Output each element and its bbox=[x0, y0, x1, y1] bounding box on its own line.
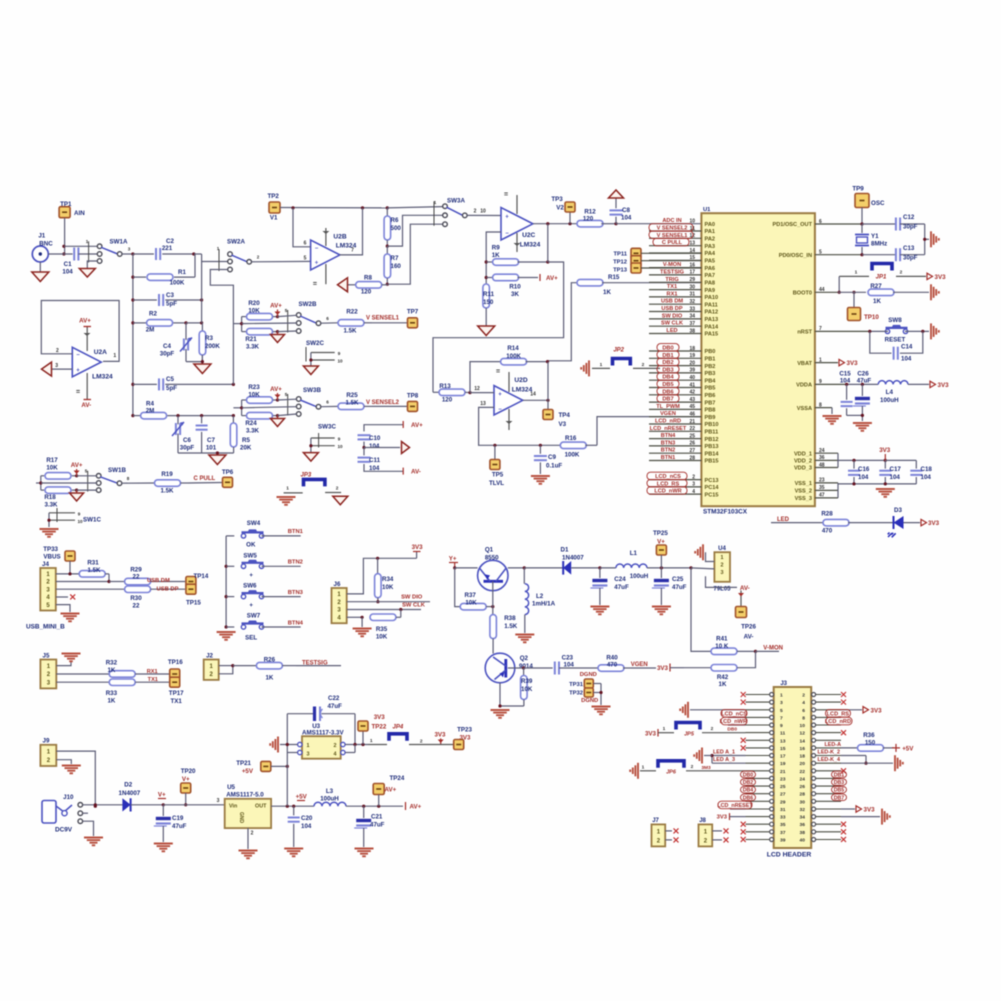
connector J5 bbox=[40, 653, 56, 689]
ground J1 bbox=[32, 272, 49, 282]
resistor R38 1.5K bbox=[490, 615, 518, 654]
net LCD_nRESET J3 bbox=[717, 801, 753, 809]
svg-text:V+: V+ bbox=[182, 776, 190, 783]
ground JP3 pin1 bbox=[277, 497, 296, 505]
svg-text:1K: 1K bbox=[719, 681, 727, 688]
svg-text:16: 16 bbox=[800, 746, 806, 752]
ground C21 bbox=[355, 849, 374, 857]
svg-text:C13: C13 bbox=[903, 245, 915, 252]
ground VSSA bbox=[823, 408, 842, 424]
svg-text:U2D: U2D bbox=[514, 377, 527, 384]
svg-text:C7: C7 bbox=[207, 437, 215, 444]
svg-text:SW7: SW7 bbox=[247, 613, 261, 620]
ground SW3C bbox=[303, 453, 318, 462]
svg-text:TP20: TP20 bbox=[181, 768, 196, 775]
testpoint TP21 +5V bbox=[236, 760, 289, 775]
svg-text:17: 17 bbox=[780, 754, 786, 760]
capacitor C19 47uF bbox=[154, 805, 187, 842]
net LCD_nCS J3 bbox=[721, 710, 747, 718]
svg-text:SW2A: SW2A bbox=[227, 239, 245, 246]
IC U3 AMS1117-3.3V bbox=[298, 723, 346, 759]
svg-text:25: 25 bbox=[780, 784, 786, 790]
svg-text:U1: U1 bbox=[703, 207, 711, 213]
transistor Q2 9014 bbox=[485, 653, 533, 683]
net BTN1 bbox=[288, 529, 304, 535]
svg-text:VSSA: VSSA bbox=[797, 406, 812, 412]
svg-text:−: − bbox=[505, 231, 509, 237]
U1 left pins PB0-PB15 bbox=[649, 344, 719, 465]
svg-text:R39: R39 bbox=[521, 678, 533, 685]
svg-text:+: + bbox=[249, 602, 253, 609]
svg-text:C12: C12 bbox=[903, 214, 915, 221]
svg-text:AIN: AIN bbox=[74, 210, 85, 217]
svg-text:1.5K: 1.5K bbox=[87, 567, 101, 574]
svg-text:1K: 1K bbox=[492, 252, 500, 259]
svg-text:C11: C11 bbox=[369, 457, 381, 464]
svg-text:31: 31 bbox=[780, 807, 786, 813]
capacitor C22 47uF bbox=[315, 695, 343, 721]
resistor R5 20K bbox=[230, 416, 252, 453]
svg-text:104: 104 bbox=[921, 474, 932, 481]
svg-text:LCD_nCS: LCD_nCS bbox=[721, 711, 747, 717]
svg-text:BTN3: BTN3 bbox=[288, 590, 304, 596]
svg-text:LCD HEADER: LCD HEADER bbox=[767, 852, 812, 859]
svg-text:DB7: DB7 bbox=[662, 397, 673, 403]
resistor R24 3.3K bbox=[242, 412, 280, 434]
svg-text:RX1: RX1 bbox=[667, 291, 678, 297]
svg-text:104: 104 bbox=[858, 474, 869, 481]
net DB6 J3 bbox=[741, 794, 756, 801]
svg-text:TP15: TP15 bbox=[186, 600, 201, 607]
svg-text:TP26: TP26 bbox=[741, 624, 756, 631]
svg-text:R32: R32 bbox=[106, 659, 118, 666]
testpoint TP8 bbox=[407, 393, 419, 412]
svg-text:USB_MINI_B: USB_MINI_B bbox=[26, 624, 65, 631]
svg-text:1K: 1K bbox=[107, 667, 115, 674]
svg-text:TP7: TP7 bbox=[407, 309, 419, 316]
ground Q2 bbox=[491, 710, 510, 718]
svg-text:D3: D3 bbox=[894, 507, 902, 514]
svg-text:TLVL: TLVL bbox=[489, 480, 504, 487]
wire U2D plus input bbox=[470, 392, 494, 394]
svg-text:1: 1 bbox=[855, 270, 858, 276]
svg-text:47uF: 47uF bbox=[172, 823, 187, 830]
svg-text:SW8: SW8 bbox=[888, 317, 902, 324]
ground R18 bbox=[70, 490, 84, 501]
svg-text:5: 5 bbox=[780, 708, 783, 714]
svg-text:JP6: JP6 bbox=[666, 770, 677, 776]
svg-text:10K: 10K bbox=[382, 584, 394, 591]
svg-text:U2B: U2B bbox=[333, 234, 346, 241]
svg-text:AV-: AV- bbox=[411, 469, 421, 476]
wire button bus bbox=[225, 536, 235, 629]
svg-text:TP10: TP10 bbox=[864, 314, 879, 321]
svg-text:SW3B: SW3B bbox=[303, 387, 321, 394]
switch SW1B bbox=[85, 467, 130, 492]
svg-text:VDD_3: VDD_3 bbox=[794, 466, 812, 472]
arrow U2A input bbox=[42, 362, 52, 376]
connector J4 USB_MINI_B bbox=[26, 561, 65, 631]
svg-text:AV-: AV- bbox=[81, 402, 91, 409]
connector J3 LCD HEADER bbox=[767, 681, 812, 859]
wire VBUS to pin1 bbox=[56, 561, 79, 576]
power AV- C11 bbox=[403, 468, 421, 476]
svg-text:2: 2 bbox=[691, 764, 694, 770]
power 3V3 R42 bbox=[657, 664, 684, 673]
svg-text:AMS1117-3.3V: AMS1117-3.3V bbox=[302, 730, 344, 737]
svg-text:C15: C15 bbox=[839, 371, 851, 378]
resistor R3 200K bbox=[199, 323, 220, 362]
ground J10 bbox=[84, 838, 103, 846]
wire U3 output bbox=[345, 743, 368, 753]
power AV- U4 bbox=[738, 585, 750, 606]
svg-text:C PULL: C PULL bbox=[662, 240, 683, 246]
svg-text:R24: R24 bbox=[245, 420, 257, 427]
svg-text:SEL: SEL bbox=[245, 635, 257, 642]
net V SENSEL2 bbox=[366, 400, 407, 406]
svg-text:22: 22 bbox=[133, 602, 140, 609]
ground R11 bbox=[478, 326, 495, 336]
crystal Y1 8MHz bbox=[855, 224, 887, 256]
svg-text:PB6: PB6 bbox=[705, 393, 716, 399]
svg-text:JP2: JP2 bbox=[613, 348, 624, 354]
svg-text:C17: C17 bbox=[890, 466, 902, 473]
svg-text:AMS1117-5.0: AMS1117-5.0 bbox=[226, 792, 264, 799]
wire J1 to C1 bbox=[48, 253, 72, 255]
wire J9 pin1 bbox=[56, 751, 97, 808]
svg-text:1K: 1K bbox=[107, 697, 115, 704]
resistor R42 1K bbox=[684, 651, 756, 688]
svg-text:PB12: PB12 bbox=[705, 437, 719, 443]
svg-text:150: 150 bbox=[865, 739, 876, 746]
arrow R8 input bbox=[338, 278, 348, 292]
svg-text:+: + bbox=[249, 572, 253, 579]
ground SW1A bbox=[79, 269, 95, 278]
pushbutton SW5 bbox=[241, 553, 300, 580]
svg-text:150: 150 bbox=[483, 299, 494, 306]
svg-text:SW1C: SW1C bbox=[83, 517, 101, 524]
svg-text:47uF: 47uF bbox=[857, 378, 872, 385]
wire U2C output feedback drop bbox=[433, 224, 564, 393]
wire Q2 base bbox=[508, 666, 553, 669]
inductor L2 1mH/1A bbox=[524, 568, 555, 633]
net LED-A J3 bbox=[825, 742, 842, 748]
testpoint TP24 bbox=[373, 775, 405, 806]
svg-text:1: 1 bbox=[113, 353, 116, 359]
capacitor C20 104 bbox=[288, 806, 313, 847]
svg-text:2: 2 bbox=[642, 362, 645, 368]
svg-text:VDD_2: VDD_2 bbox=[794, 459, 812, 465]
inductor L1 100uH bbox=[600, 550, 693, 580]
svg-text:9: 9 bbox=[780, 723, 783, 729]
svg-text:R20: R20 bbox=[248, 300, 260, 307]
svg-text:C2: C2 bbox=[166, 238, 174, 245]
svg-text:R6: R6 bbox=[391, 217, 399, 224]
svg-text:R7: R7 bbox=[391, 255, 399, 262]
pushbutton SW4 OK bbox=[241, 520, 300, 549]
svg-text:R1: R1 bbox=[178, 269, 186, 276]
testpoint TP13 bbox=[613, 263, 701, 274]
svg-text:J5: J5 bbox=[43, 653, 50, 660]
resistor R23 10K bbox=[242, 384, 280, 403]
svg-text:VSS_1: VSS_1 bbox=[795, 481, 812, 487]
svg-text:3V3: 3V3 bbox=[928, 520, 940, 527]
svg-text:TP4: TP4 bbox=[559, 412, 571, 419]
svg-text:V1: V1 bbox=[270, 215, 278, 222]
svg-text:28: 28 bbox=[800, 792, 806, 798]
resistor R34 10K bbox=[375, 558, 394, 603]
svg-text:120: 120 bbox=[361, 289, 372, 296]
net LCD_nRD J3 bbox=[825, 717, 852, 725]
svg-text:PB15: PB15 bbox=[705, 459, 719, 465]
resistor R14 100K bbox=[470, 345, 549, 393]
pushbutton SW6 bbox=[241, 583, 300, 610]
svg-text:=: = bbox=[76, 389, 80, 396]
wire U4 pin3 AV- bbox=[706, 576, 738, 587]
svg-text:BTN2: BTN2 bbox=[661, 448, 676, 454]
svg-text:+: + bbox=[315, 261, 319, 267]
svg-text:C24: C24 bbox=[614, 576, 626, 583]
svg-text:=: = bbox=[504, 192, 508, 199]
net TESTSIG bbox=[296, 661, 341, 667]
svg-text:13: 13 bbox=[480, 401, 486, 407]
wire U5 ground bbox=[247, 828, 249, 849]
svg-text:−: − bbox=[315, 246, 319, 252]
capacitor C6 30pF variable bbox=[172, 416, 194, 453]
resistor R11 150 bbox=[483, 284, 495, 326]
wire VDDA rail bbox=[846, 383, 878, 385]
svg-text:PA4: PA4 bbox=[705, 251, 716, 257]
resistor R35 10K bbox=[347, 610, 401, 641]
svg-text:TL_PWM: TL_PWM bbox=[656, 404, 680, 410]
svg-text:2M: 2M bbox=[146, 408, 155, 415]
svg-text:2: 2 bbox=[420, 739, 423, 745]
svg-text:−: − bbox=[76, 353, 80, 359]
svg-text:SW3A: SW3A bbox=[447, 198, 465, 205]
svg-text:TP22: TP22 bbox=[372, 724, 387, 731]
svg-text:3: 3 bbox=[721, 570, 724, 576]
svg-text:L3: L3 bbox=[326, 788, 334, 795]
jumper JP3 bbox=[284, 473, 342, 493]
svg-text:C5: C5 bbox=[166, 376, 174, 383]
svg-text:C8: C8 bbox=[622, 207, 630, 214]
svg-text:TP14: TP14 bbox=[194, 573, 209, 580]
svg-text:2: 2 bbox=[336, 486, 339, 492]
switch SW3B bbox=[285, 387, 330, 416]
svg-text:TP11: TP11 bbox=[613, 252, 627, 258]
capacitor C23 104 bbox=[555, 655, 599, 675]
wire R17 R18 tie bbox=[36, 476, 42, 490]
wire BOOT0 node bbox=[838, 276, 866, 294]
svg-text:R26: R26 bbox=[264, 657, 276, 664]
svg-text:40: 40 bbox=[800, 838, 806, 844]
svg-text:D2: D2 bbox=[124, 782, 132, 789]
wire J1 to ground bbox=[39, 262, 41, 272]
svg-text:C22: C22 bbox=[328, 695, 340, 702]
svg-text:J3: J3 bbox=[780, 681, 787, 687]
svg-text:R21: R21 bbox=[245, 336, 257, 343]
svg-text:18: 18 bbox=[800, 754, 806, 760]
wire R23 R24 left tie bbox=[233, 400, 243, 416]
testpoint TP2 bbox=[268, 193, 280, 221]
svg-text:PC15: PC15 bbox=[705, 492, 719, 498]
svg-text:3V3: 3V3 bbox=[717, 815, 728, 821]
svg-text:V SENSEL2: V SENSEL2 bbox=[366, 400, 400, 406]
svg-text:TX1: TX1 bbox=[667, 284, 677, 290]
power AV+ C10 bbox=[403, 421, 423, 429]
svg-text:=: = bbox=[313, 281, 317, 288]
capacitor C5 5pF bbox=[133, 376, 235, 392]
ground R35 bbox=[353, 617, 372, 636]
power 3V3 VDD bbox=[879, 447, 891, 460]
svg-text:3V3: 3V3 bbox=[434, 731, 446, 738]
wire C15 C26 join bbox=[847, 414, 864, 417]
resistor R16 100K bbox=[560, 417, 701, 459]
capacitor C15 104 bbox=[839, 371, 852, 416]
svg-text:PA3: PA3 bbox=[705, 244, 715, 250]
wire C1 to SW1A bbox=[64, 246, 97, 254]
connector J8 bbox=[699, 818, 713, 846]
svg-text:104: 104 bbox=[890, 474, 901, 481]
svg-text:LCD_nWR: LCD_nWR bbox=[654, 489, 681, 495]
wire J5 pin1 power bbox=[56, 662, 71, 666]
wire Q2 emitter ground bbox=[498, 683, 524, 708]
svg-text:10K: 10K bbox=[248, 392, 260, 399]
resistor R8 120 bbox=[347, 275, 387, 296]
svg-text:PA13: PA13 bbox=[705, 317, 719, 323]
svg-text:19: 19 bbox=[780, 761, 786, 767]
svg-text:33: 33 bbox=[780, 815, 786, 821]
svg-text:USB DM: USB DM bbox=[147, 578, 170, 584]
svg-text:8550: 8550 bbox=[485, 555, 499, 562]
svg-text:PB5: PB5 bbox=[705, 386, 716, 392]
svg-text:OK: OK bbox=[246, 542, 256, 549]
wire SW1A pin to ground bbox=[87, 261, 97, 269]
svg-text:3: 3 bbox=[780, 700, 783, 706]
wire J10 sleeve ground bbox=[83, 813, 94, 836]
svg-text:3: 3 bbox=[307, 752, 310, 758]
svg-text:3V3: 3V3 bbox=[645, 731, 657, 738]
svg-text:J6: J6 bbox=[334, 581, 341, 588]
svg-text:SW6: SW6 bbox=[243, 583, 257, 590]
jumper JP4 bbox=[368, 725, 437, 745]
svg-text:STM32F103CX: STM32F103CX bbox=[703, 509, 748, 516]
wire Q1 collector bbox=[508, 566, 563, 569]
svg-text:30pF: 30pF bbox=[160, 351, 175, 358]
svg-text:100uH: 100uH bbox=[630, 573, 649, 580]
svg-text:5: 5 bbox=[85, 469, 88, 474]
resistor R37 10K bbox=[455, 568, 495, 610]
svg-text:PA11: PA11 bbox=[705, 302, 718, 308]
svg-text:DGND: DGND bbox=[580, 672, 597, 678]
svg-text:38: 38 bbox=[800, 830, 806, 836]
svg-text:J2: J2 bbox=[206, 652, 213, 659]
wire J10 output bbox=[83, 803, 123, 806]
J3 pin circles and stubs bbox=[746, 693, 842, 844]
svg-text:10 K: 10 K bbox=[715, 643, 729, 650]
svg-text:VGEN: VGEN bbox=[631, 662, 648, 668]
svg-text:12: 12 bbox=[474, 386, 480, 392]
svg-text:Y1: Y1 bbox=[871, 233, 879, 240]
svg-text:5pF: 5pF bbox=[166, 385, 177, 392]
svg-text:JP1: JP1 bbox=[876, 275, 887, 281]
net TX1 bbox=[148, 677, 158, 683]
svg-text:104: 104 bbox=[301, 823, 312, 830]
svg-text:PA6: PA6 bbox=[705, 266, 715, 272]
svg-text:100K: 100K bbox=[170, 280, 185, 287]
svg-text:7: 7 bbox=[780, 715, 783, 721]
svg-text:−: − bbox=[498, 407, 502, 413]
resistor R33 1K bbox=[56, 679, 169, 704]
svg-text:R28: R28 bbox=[821, 511, 833, 518]
ground arrow JP6 bbox=[630, 763, 638, 779]
svg-text:R3: R3 bbox=[205, 335, 213, 342]
svg-text:BTN4: BTN4 bbox=[661, 433, 676, 439]
svg-text:10K: 10K bbox=[521, 686, 533, 693]
wire SW3B pins bbox=[242, 399, 297, 415]
testpoint TP1 bbox=[59, 201, 85, 218]
power 3V3 VBAT bbox=[839, 359, 858, 367]
connector J9 bbox=[40, 738, 56, 767]
wire U2A feedback loop bbox=[41, 301, 119, 369]
wire J3 LED A rows bbox=[704, 750, 746, 764]
net Y+ input bbox=[449, 556, 458, 570]
svg-text:VDD_1: VDD_1 bbox=[794, 451, 812, 457]
ground arrow JP2 bbox=[581, 360, 589, 376]
resistor R28 470 bbox=[821, 511, 893, 535]
resistor R40 470 bbox=[598, 655, 631, 672]
svg-text:1.5K: 1.5K bbox=[343, 328, 357, 335]
svg-text:PA7: PA7 bbox=[705, 273, 715, 279]
svg-text:24: 24 bbox=[800, 776, 806, 782]
svg-text:TP23: TP23 bbox=[457, 726, 472, 733]
testpoint TP22 bbox=[358, 714, 387, 745]
resistor R4 2M bbox=[133, 401, 235, 419]
testpoint TP26 bbox=[736, 607, 757, 641]
svg-text:R16: R16 bbox=[565, 435, 577, 442]
svg-text:SW2B: SW2B bbox=[299, 301, 317, 308]
svg-text:R15: R15 bbox=[608, 274, 620, 281]
svg-text:22: 22 bbox=[133, 574, 140, 581]
power 3V3 D3 bbox=[921, 519, 940, 527]
svg-text:PA15: PA15 bbox=[705, 332, 719, 338]
svg-text:R10: R10 bbox=[509, 284, 521, 291]
svg-text:1N4007: 1N4007 bbox=[562, 555, 584, 562]
wire TP1 to input node bbox=[62, 218, 65, 256]
svg-text:10K: 10K bbox=[46, 465, 58, 472]
wire J3 row5 arrow bbox=[690, 709, 746, 711]
svg-text:1.5K: 1.5K bbox=[160, 488, 174, 495]
resistor R22 1.5K bbox=[321, 309, 372, 335]
svg-text:6: 6 bbox=[802, 708, 805, 714]
wire SW2A common to U2B bbox=[252, 260, 311, 262]
svg-text:3: 3 bbox=[128, 247, 131, 252]
capacitor C13 30pF bbox=[862, 245, 925, 262]
svg-text:USB DM: USB DM bbox=[661, 299, 683, 305]
svg-text:BTN1: BTN1 bbox=[288, 529, 304, 535]
wire R7 junction to SW3A pin4 bbox=[387, 224, 443, 284]
resistor R25 1.5K bbox=[321, 392, 372, 410]
svg-text:BOOT0: BOOT0 bbox=[793, 291, 812, 297]
svg-text:SW DIO: SW DIO bbox=[401, 595, 423, 601]
svg-text:PD0/OSC_IN: PD0/OSC_IN bbox=[779, 253, 812, 259]
svg-text:9: 9 bbox=[78, 512, 81, 517]
svg-text:R8: R8 bbox=[364, 275, 372, 282]
wire U2C output row bbox=[533, 222, 579, 225]
svg-text:2: 2 bbox=[474, 209, 477, 215]
svg-text:J9: J9 bbox=[43, 738, 50, 745]
svg-text:C3: C3 bbox=[166, 292, 174, 299]
